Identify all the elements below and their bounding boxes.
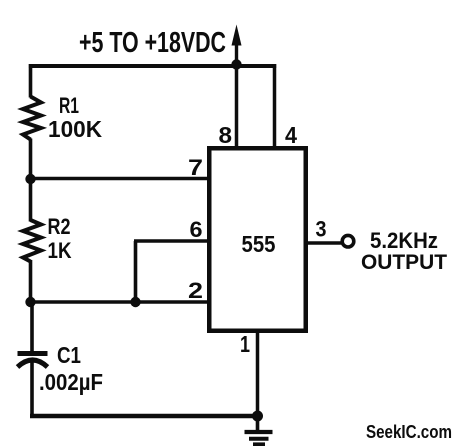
svg-text:7: 7 [188, 155, 203, 180]
svg-text:8: 8 [219, 122, 233, 148]
svg-text:.002µF: .002µF [39, 369, 103, 395]
svg-text:2: 2 [188, 278, 203, 303]
wire pin 6 horizontal [134, 239, 208, 243]
svg-text:1K: 1K [48, 238, 72, 263]
wire between R2 and C1 [31, 260, 33, 352]
wire pin6 to pin2 vertical [134, 241, 138, 302]
resistor R1 [23, 97, 41, 140]
wire top rail [29, 64, 276, 68]
junction dot at arrow/rail [231, 59, 241, 69]
wire pin 4 vertical [273, 64, 277, 147]
svg-text:100K: 100K [48, 116, 102, 142]
wire below C1 [30, 358, 34, 418]
output terminal circle [342, 235, 354, 247]
svg-text:OUTPUT: OUTPUT [361, 251, 447, 274]
svg-text:+5 TO +18VDC: +5 TO +18VDC [79, 27, 226, 59]
capacitor C1 top plate [18, 351, 48, 356]
junction dot at ground [252, 411, 263, 422]
wire left rail top segment [29, 64, 33, 98]
svg-text:3: 3 [316, 217, 327, 242]
svg-text:SeekIC.com: SeekIC.com [366, 422, 452, 442]
resistor R2 [23, 220, 41, 262]
junction dot pin2/pin6 link [130, 297, 140, 307]
svg-text:5.2KHz: 5.2KHz [370, 228, 438, 253]
wire pin 3 output [306, 241, 342, 245]
svg-text:R1: R1 [59, 93, 79, 118]
svg-text:R2: R2 [48, 214, 71, 239]
wire pin 8 vertical [235, 64, 239, 147]
wire bottom rail [30, 414, 258, 419]
svg-text:4: 4 [285, 122, 297, 148]
wire pin 7 horizontal [31, 177, 209, 181]
svg-text:555: 555 [242, 231, 276, 257]
power supply arrow [232, 25, 242, 64]
svg-text:1: 1 [240, 331, 250, 357]
wire pin 1 vertical [256, 330, 260, 416]
IC U1 555 timer body [209, 148, 306, 331]
junction node at R1/R2/pin7 [25, 174, 35, 184]
wire between R1 and R2 [29, 139, 33, 222]
svg-text:C1: C1 [57, 342, 81, 368]
wire pin 2 horizontal [31, 300, 209, 304]
ground [245, 416, 273, 444]
svg-text:6: 6 [190, 217, 203, 242]
junction node at R2/pin2 [25, 297, 35, 307]
capacitor C1 curved plate [18, 360, 48, 367]
